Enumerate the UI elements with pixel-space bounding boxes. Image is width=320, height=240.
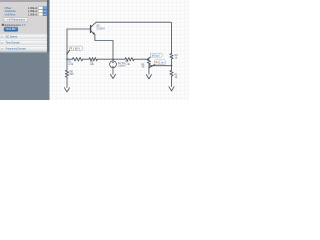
wire top collector bus to right rail — [96, 22, 172, 53]
resistor R1 — [72, 58, 82, 61]
svg-text:Unit/Time:: Unit/Time: — [5, 13, 17, 16]
label VSIN — [118, 62, 126, 68]
run button — [4, 27, 18, 31]
node row-left junction — [66, 58, 68, 60]
label RL — [175, 74, 179, 79]
node emitter-row junction — [112, 58, 114, 60]
svg-text:1.4k: 1.4k — [125, 63, 130, 66]
resistor RL — [170, 70, 173, 76]
all parameters button — [4, 18, 28, 22]
svg-text:1 2 3: 1 2 3 — [20, 24, 26, 27]
svg-text:Run DC: Run DC — [7, 28, 16, 31]
ground under R6 — [146, 75, 151, 79]
wire node out to right rail — [149, 65, 172, 67]
ground under RL — [169, 87, 174, 91]
svg-text:1.65 V: 1.65 V — [73, 48, 81, 51]
property rows — [5, 7, 47, 17]
label R6 — [141, 63, 145, 68]
svg-text:+ All Parameters: + All Parameters — [7, 19, 26, 22]
resistor RE — [65, 70, 68, 77]
svg-text:Frequency Domain: Frequency Domain — [6, 48, 27, 51]
wire R3 to RL — [171, 59, 173, 70]
probe VOUT callout — [147, 53, 162, 59]
wire RL to ground — [171, 76, 173, 86]
svg-text:Time Domain: Time Domain — [6, 42, 21, 45]
wire RE to ground — [66, 77, 68, 87]
node out junction — [171, 65, 173, 67]
resistor R3 — [170, 54, 173, 60]
svg-text:Expand levels:: Expand levels: — [5, 24, 21, 27]
svg-text:847mV: 847mV — [152, 54, 160, 57]
resistor R2 — [89, 58, 97, 61]
label R3 — [175, 54, 179, 59]
probe VC callout — [66, 46, 82, 54]
resistor R4 — [125, 58, 134, 61]
resistor R6 — [147, 59, 150, 64]
ground under source — [110, 74, 115, 78]
svg-text:DC Sweep: DC Sweep — [6, 35, 18, 38]
wire row between R1 and R2 — [83, 58, 89, 60]
probe GAIN callout — [149, 60, 166, 69]
wire emitter to row and source — [95, 34, 113, 61]
svg-text:2.2k: 2.2k — [69, 63, 74, 66]
component value labels — [69, 25, 179, 79]
wire row start down through RE — [66, 59, 68, 70]
svg-text:▸: ▸ — [2, 35, 3, 38]
svg-text:2N3904: 2N3904 — [96, 27, 105, 30]
svg-text:1.00E+0: 1.00E+0 — [28, 13, 38, 16]
canvas background — [0, 0, 189, 100]
expand levels row — [2, 24, 4, 26]
label R1 — [69, 61, 74, 67]
label Q5 — [96, 25, 105, 31]
svg-text:80.0m: 80.0m — [158, 61, 165, 64]
source VSIN circle — [110, 61, 117, 68]
label RE — [70, 71, 75, 77]
accordion area — [0, 34, 47, 53]
svg-text:▸: ▸ — [2, 42, 3, 45]
wire row between R4 and R6 — [134, 58, 149, 60]
svg-text:1.0kHz: 1.0kHz — [118, 65, 126, 68]
wire row left segment — [67, 58, 72, 60]
svg-text:820: 820 — [70, 73, 75, 76]
svg-text:▸: ▸ — [2, 48, 3, 51]
transistor Q5 — [91, 22, 97, 34]
wire row between R2 and R4 — [97, 58, 125, 60]
wire R6 to ground — [148, 65, 150, 75]
label R4 — [125, 61, 130, 67]
wire source to ground — [112, 68, 114, 75]
label R2 — [90, 61, 95, 67]
wire base: left corner down to row — [67, 29, 91, 59]
ground under RE — [64, 88, 69, 92]
